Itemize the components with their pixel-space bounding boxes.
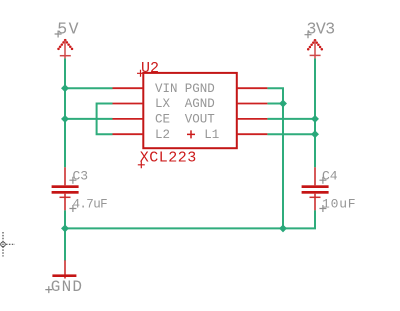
pin VOUT stub [237,118,268,120]
svg-text:C3: C3 [73,169,89,184]
wire VOUT to 3V3 rail [267,118,315,120]
junction dot CE/5V [61,115,69,123]
wire 5V rail vertical (top-left) [64,59,66,168]
svg-text:CE: CE [155,113,170,127]
pin tick 3V3 [310,54,321,56]
C3 top lead [64,167,66,185]
wire PGND down to GND net [267,88,283,228]
part origin cross U2 [187,130,195,138]
svg-text:5V: 5V [57,19,80,38]
svg-text:L1: L1 [204,128,219,142]
svg-text:3V3: 3V3 [307,19,335,38]
svg-text:VOUT: VOUT [185,113,216,127]
pin lead 5V [64,41,66,59]
ground symbol GND [52,260,76,278]
svg-text:PGND: PGND [185,82,215,96]
text origin cross 4.7uF [69,205,76,212]
C4 pin tick [310,196,321,198]
junction dot VIN/5V [61,84,69,92]
wire L1 to 3V3 rail [267,133,315,135]
C3 pin tick [60,196,71,198]
text origin cross 3V3 [305,31,312,38]
junction dot bottom-left [61,224,69,232]
supply symbol 5V arrow [57,39,73,50]
sheet origin marker [1,232,15,257]
text origin cross C4 [319,177,326,184]
pin L1 stub [237,133,268,135]
svg-text:VIN: VIN [155,82,178,96]
text origin cross U2 label [137,70,144,77]
wire LX to L2 loop [97,104,113,135]
pin L2 stub [113,133,144,135]
wire VIN to 5V rail [65,87,113,89]
capacitor C4 [302,167,329,210]
GND pin lead [64,260,66,278]
pin VIN stub [113,87,144,89]
GND bar [52,274,76,277]
wire 3V3 rail vertical (top-right) [314,59,316,168]
supply symbol 3V3 arrow [307,39,323,50]
C3 top plate [52,185,79,188]
pin lead 3V3 [314,41,316,59]
text origin cross 5V [55,31,62,38]
C4 top lead [314,167,316,185]
wire CE to 5V rail [65,118,113,120]
wire left rail below C3 to GND [64,210,66,260]
pin AGND stub [237,103,268,105]
junction dot VOUT/3V3 [311,115,319,123]
svg-text:4.7uF: 4.7uF [73,198,108,212]
wire AGND to GND vertical [267,103,283,105]
text origin cross GND [45,286,52,293]
C3 bottom plate [52,191,79,194]
svg-text:XCL223: XCL223 [140,150,197,167]
text origin cross XCL223 label [138,161,145,168]
capacitor C3 [52,167,79,210]
svg-text:AGND: AGND [185,97,215,111]
svg-text:GND: GND [51,278,83,296]
svg-text:C4: C4 [322,169,338,184]
svg-text:L2: L2 [155,128,170,142]
svg-text:U2: U2 [141,60,159,77]
pin tick 5V [60,55,71,57]
junction dot GND bus [279,224,287,232]
junction dot AGND [279,100,287,108]
C4 bottom plate [302,191,329,194]
svg-text:10uF: 10uF [322,197,356,212]
C3 bottom lead [64,194,66,211]
text origin cross 10uF [319,205,326,212]
svg-text:LX: LX [155,97,171,111]
pin PGND stub [237,87,268,89]
text origin cross C3 [69,177,76,184]
pin CE stub [113,118,144,120]
op-amp U2 box XCL223 regulator [143,73,237,148]
pin LX stub [113,103,144,105]
C4 top plate [302,185,329,188]
C4 bottom lead [314,194,316,211]
junction dot L1/3V3 [311,130,319,138]
wire bottom GND bus [65,210,315,228]
